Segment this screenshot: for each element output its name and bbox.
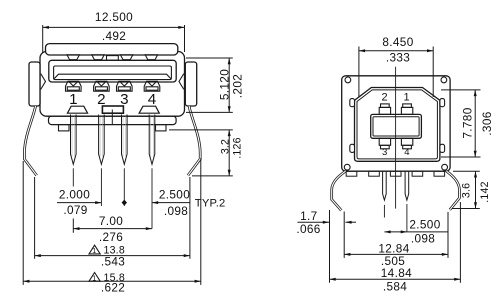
USB-B corner mark BL — [344, 164, 350, 170]
dimension 5.120 / .202 — [186, 58, 233, 112]
svg-text:3: 3 — [120, 91, 128, 108]
USB-A pin 1 — [71, 115, 77, 165]
svg-text:.622: .622 — [101, 280, 125, 294]
svg-text:1.7: 1.7 — [300, 209, 317, 223]
USB-A lid — [46, 44, 178, 55]
USB-A cavity depth line — [54, 74, 171, 79]
USB-B standoff rib 2 — [369, 171, 380, 176]
USB-A shell dimple 3 — [120, 55, 132, 60]
USB-B standoff rib 5 — [434, 171, 445, 176]
USB-A shell dimple 1 — [67, 55, 79, 60]
dimension 7.00 / .276 — [73, 219, 152, 233]
USB-A foot right — [156, 125, 167, 131]
svg-text:7.780: 7.780 — [461, 107, 475, 138]
USB-A shell chevron right — [179, 74, 184, 90]
USB-B corner mark TL — [345, 77, 351, 83]
svg-text:.202: .202 — [230, 74, 244, 98]
dimension 7.780 / .306 — [441, 90, 481, 157]
svg-text:.584: .584 — [383, 280, 407, 294]
svg-text:7.00: 7.00 — [99, 214, 123, 228]
svg-text:2: 2 — [381, 92, 387, 104]
dimension 2.500 / .098 TYP.2 — [152, 202, 190, 204]
USB-B latch bump left top — [350, 99, 355, 107]
dimension flag-1 13.8 / .543 — [89, 245, 100, 254]
node: pin3 reference diamond — [122, 200, 127, 206]
svg-text:1: 1 — [92, 248, 96, 255]
USB-B shroud inner — [357, 90, 437, 159]
dimension 12.84 / .505 — [344, 212, 448, 258]
dimension 8.450 / .333 — [359, 47, 433, 98]
USB-A shell — [40, 52, 185, 117]
USB-B shroud outer — [355, 88, 440, 162]
USB-B latch bump left bottom — [350, 144, 355, 152]
USB-B pin 2 contact — [379, 107, 390, 114]
svg-text:4: 4 — [148, 91, 156, 108]
USB-B needle left centerline — [383, 205, 385, 218]
svg-text:.126: .126 — [232, 137, 244, 158]
USB-A shell dimple 4 — [145, 55, 157, 60]
USB-A mounting leg right — [188, 106, 200, 176]
USB-A opening inner — [54, 66, 172, 80]
svg-text:2.500: 2.500 — [409, 217, 440, 231]
USB-A lower cutout left — [67, 106, 87, 113]
svg-text:2.500: 2.500 — [159, 188, 190, 202]
svg-text:8.450: 8.450 — [382, 35, 413, 49]
USB-B latch bump right top — [440, 99, 445, 107]
USB-B corner mark TR — [441, 77, 447, 83]
dimension 12.500 / .492 — [43, 25, 185, 53]
USB-A pin 3 centerline — [123, 168, 125, 206]
dimension 1.7 / .066 — [298, 221, 330, 223]
svg-text:1: 1 — [403, 92, 409, 104]
svg-text:.306: .306 — [480, 111, 494, 135]
USB-A mounting leg left — [24, 106, 36, 176]
dimension 3.2 / .126 — [169, 130, 233, 176]
USB-B corner mark BR — [442, 164, 448, 170]
svg-text:2: 2 — [97, 91, 105, 108]
svg-text:14.84: 14.84 — [381, 266, 412, 280]
USB-A contact window 4 — [144, 81, 160, 91]
dimension flag-1 15.8 / .622 — [89, 273, 100, 282]
svg-text:4: 4 — [404, 147, 409, 158]
svg-text:.492: .492 — [102, 29, 126, 43]
svg-text:3.2: 3.2 — [219, 139, 231, 154]
USB-A shell chevron left — [41, 74, 46, 90]
dimension 2.500 / .098 (USB-B) — [384, 231, 447, 233]
USB-A lower cutout center — [102, 106, 123, 113]
USB-B standoff rib 3 — [390, 171, 401, 176]
svg-text:12.500: 12.500 — [95, 10, 133, 24]
USB-A shell center tab — [107, 56, 119, 61]
USB-A lower cutout right — [139, 106, 159, 113]
svg-text:2.000: 2.000 — [59, 188, 90, 202]
svg-text:3.6: 3.6 — [460, 183, 472, 198]
USB-B needle pin right — [405, 171, 409, 200]
USB-B centerline — [395, 67, 397, 209]
USB-B standoff rib 1 — [346, 171, 357, 176]
svg-text:3: 3 — [382, 147, 387, 158]
svg-text:.098: .098 — [411, 232, 435, 246]
USB-A side tab left — [29, 62, 40, 106]
dimension 14.84 / .584 — [330, 202, 461, 283]
USB-B needle right centerline — [406, 204, 408, 232]
USB-A base band — [49, 116, 177, 124]
USB-A pin 4 — [149, 115, 155, 165]
svg-text:.276: .276 — [99, 230, 123, 244]
USB-A side tab right — [185, 62, 196, 106]
USB-A pin 4 centerline — [151, 168, 153, 228]
svg-text:TYP.2: TYP.2 — [195, 198, 226, 210]
USB-A pin 2 centerline — [100, 168, 102, 206]
dimension 2.000 / .079 — [57, 202, 101, 204]
USB-A contact window 3 — [117, 81, 133, 91]
svg-text:.333: .333 — [386, 50, 410, 64]
svg-text:.142: .142 — [479, 181, 491, 202]
USB-A base center divider — [111, 110, 113, 125]
svg-text:.079: .079 — [63, 203, 87, 217]
USB-B tongue inner — [373, 117, 419, 136]
USB-B latch bump right bottom — [440, 144, 445, 152]
svg-text:.543: .543 — [101, 255, 125, 269]
svg-text:5.120: 5.120 — [217, 69, 231, 100]
USB-B mounting leg right — [447, 171, 460, 210]
USB-B standoff rib 4 — [412, 171, 423, 176]
USB-A shell dimple 2 — [92, 55, 104, 60]
dimension 3.6 / .142 — [452, 171, 480, 208]
svg-text:1: 1 — [69, 91, 77, 108]
USB-A contact window 1 — [66, 81, 82, 91]
svg-text:.066: .066 — [296, 222, 320, 236]
USB-A pin 2 — [99, 115, 105, 165]
USB-A pin 1 centerline — [72, 168, 74, 186]
USB-B body — [342, 67, 450, 232]
USB-A contact window 2 — [94, 81, 110, 91]
USB-A pin 3 — [122, 115, 128, 165]
USB-B mounting leg left — [332, 171, 346, 210]
USB-B pin 1 contact — [401, 107, 412, 114]
svg-text:.098: .098 — [164, 204, 188, 218]
USB-B tongue outer — [371, 114, 422, 138]
USB-A opening outer — [49, 60, 176, 82]
USB-B pin 4 contact — [401, 138, 412, 145]
USB-B needle pin left — [383, 171, 387, 200]
USB-A foot left — [59, 125, 70, 131]
USB-B pin 3 contact — [379, 138, 390, 145]
